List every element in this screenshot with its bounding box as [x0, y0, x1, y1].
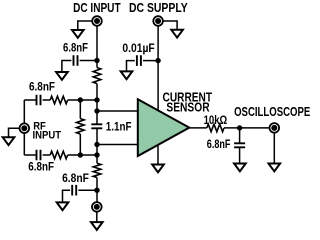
svg-text:1.1nF: 1.1nF	[106, 120, 132, 134]
wire C1 left lead to ground	[62, 61, 72, 73]
wire J1 down to node A	[96, 26, 98, 61]
svg-text:6.8nF: 6.8nF	[28, 160, 54, 174]
node bottom-left junction	[78, 152, 83, 157]
wire op-amp output	[189, 127, 207, 129]
resistor R4	[50, 151, 67, 159]
ground at DC SUPPLY	[171, 30, 183, 38]
svg-text:DC SUPPLY: DC SUPPLY	[129, 0, 188, 15]
wire C7 to ground	[239, 148, 241, 164]
capacitor C7 6.8nF	[234, 143, 245, 147]
wire J1 to ground elbow	[78, 21, 93, 30]
connector J4 DC output	[92, 202, 102, 212]
ground below J4	[91, 222, 103, 230]
wire J2 down to op-amp	[157, 26, 159, 112]
wire R3 to bottom	[79, 134, 81, 155]
wire C5 to node C	[96, 129, 98, 155]
resistor R1	[93, 68, 101, 84]
svg-text:OSCILLOSCOPE: OSCILLOSCOPE	[234, 104, 311, 119]
connector J2 DC SUPPLY	[153, 16, 163, 26]
wire C2 right lead	[143, 60, 158, 62]
wire R6 to J5	[224, 127, 270, 129]
wire node C to R5	[96, 155, 98, 163]
connector J5 OSCILLOSCOPE	[270, 123, 280, 133]
wire node E to C7	[239, 128, 241, 143]
wire R2 to node B	[68, 99, 97, 101]
svg-text:DC INPUT: DC INPUT	[73, 0, 121, 15]
capacitor C4 6.8nF	[37, 150, 41, 161]
wire C6 left lead to ground	[63, 190, 71, 202]
node op-amp plus tap	[94, 108, 99, 113]
resistor R3	[77, 119, 85, 134]
wire R4 to node C	[68, 154, 97, 156]
wire J5 to ground	[273, 133, 275, 164]
capacitor C6 6.8nF	[72, 185, 76, 196]
ground at C2	[121, 71, 133, 79]
node supply junction	[155, 58, 160, 63]
svg-text:6.8nF: 6.8nF	[62, 171, 89, 185]
wire R5 to node D	[96, 178, 98, 203]
ground at DC INPUT	[72, 30, 84, 38]
wire to op-amp top input	[97, 110, 138, 112]
svg-text:6.8nF: 6.8nF	[29, 79, 55, 93]
wire C1 right lead	[80, 60, 97, 62]
wire node A to R1	[96, 61, 98, 68]
node top-left junction	[78, 97, 83, 102]
wire op-amp ground pin	[157, 144, 159, 165]
resistor R2	[50, 96, 67, 104]
wire top to R3	[79, 100, 81, 119]
node A junction	[94, 58, 99, 63]
node D junction	[94, 188, 99, 193]
ground below J5	[269, 164, 281, 172]
svg-text:INPUT: INPUT	[33, 130, 62, 142]
node E junction	[237, 125, 242, 130]
wire rail to C3	[24, 99, 36, 101]
op-amp U1 current sensor	[138, 99, 190, 156]
capacitor C1 6.8nF	[74, 55, 78, 66]
wire C2 left lead to ground	[127, 61, 135, 72]
node op-amp minus tap	[94, 142, 99, 147]
connector J3 RF INPUT	[20, 123, 30, 133]
wire left rail	[23, 100, 25, 155]
wire to op-amp bottom input	[97, 144, 138, 146]
node B junction	[94, 97, 99, 102]
wire R1 to node B	[96, 84, 98, 100]
wire node B to C5	[96, 100, 98, 124]
wire J2 to ground elbow	[163, 21, 178, 30]
svg-text:6.8nF: 6.8nF	[63, 41, 88, 55]
wire C3 to R2	[43, 99, 51, 101]
ground at C7	[234, 164, 246, 172]
wire C4 to R4	[43, 154, 51, 156]
wire rail to C4	[24, 154, 36, 156]
resistor R5	[93, 163, 101, 177]
resistor R6 10k	[207, 124, 224, 132]
ground at op-amp	[152, 165, 164, 173]
capacitor C5 1.1nF	[91, 124, 102, 128]
wire J4 to ground	[96, 212, 98, 222]
svg-text:6.8nF: 6.8nF	[207, 137, 231, 151]
wire C6 right lead	[78, 189, 97, 191]
capacitor C3 6.8nF	[37, 95, 41, 106]
node C junction	[94, 152, 99, 157]
ground at C6	[57, 202, 69, 210]
connector J1 DC INPUT	[92, 16, 102, 26]
wire J3 to ground elbow	[9, 128, 25, 137]
svg-text:0.01µF: 0.01µF	[122, 41, 154, 55]
capacitor C2 0.01uF	[137, 55, 141, 66]
ground at C1	[56, 72, 68, 80]
ground at RF INPUT	[3, 137, 15, 145]
